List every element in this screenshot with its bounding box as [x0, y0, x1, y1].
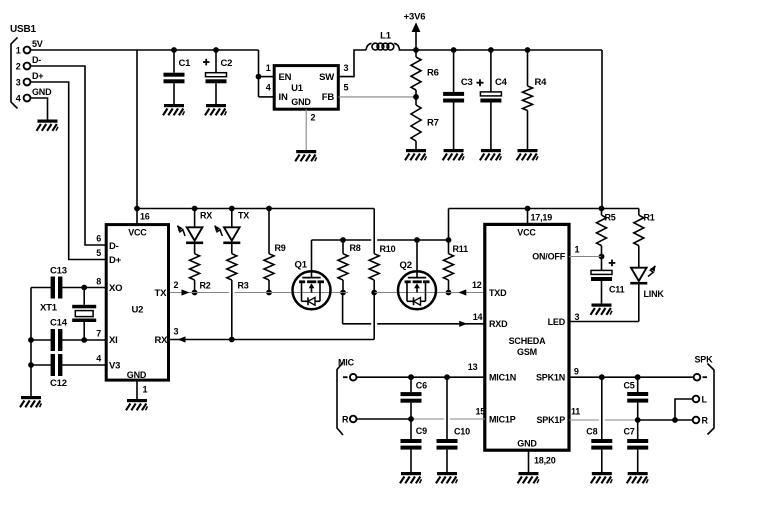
- svg-text:4: 4: [16, 94, 21, 104]
- svg-text:R8: R8: [350, 243, 361, 253]
- svg-text:R4: R4: [535, 77, 548, 88]
- svg-text:13: 13: [468, 362, 478, 372]
- svg-text:XT1: XT1: [40, 303, 58, 314]
- svg-text:14: 14: [473, 312, 483, 322]
- svg-text:15: 15: [476, 407, 486, 417]
- svg-text:C4: C4: [495, 77, 508, 88]
- svg-text:D-: D-: [109, 241, 119, 252]
- svg-text:4: 4: [96, 354, 101, 364]
- svg-text:D+: D+: [109, 255, 122, 266]
- svg-text:R11: R11: [453, 244, 469, 254]
- svg-text:FB: FB: [322, 92, 335, 103]
- svg-text:5: 5: [344, 83, 349, 93]
- svg-text:8: 8: [96, 277, 101, 287]
- svg-text:C14: C14: [50, 318, 68, 329]
- svg-text:RX: RX: [200, 211, 212, 221]
- svg-text:Q1: Q1: [295, 260, 308, 271]
- svg-text:R: R: [702, 416, 709, 426]
- svg-text:GND: GND: [127, 370, 147, 380]
- svg-text:4: 4: [266, 83, 271, 93]
- svg-text:C3: C3: [461, 77, 473, 88]
- svg-text:GND: GND: [517, 439, 537, 449]
- svg-text:1: 1: [266, 63, 271, 73]
- svg-text:C11: C11: [609, 285, 625, 295]
- svg-text:1: 1: [575, 245, 580, 255]
- svg-text:R2: R2: [200, 281, 211, 291]
- svg-text:C2: C2: [221, 58, 233, 69]
- svg-text:RX: RX: [155, 335, 169, 346]
- svg-text:MIC1N: MIC1N: [489, 373, 516, 383]
- svg-text:2: 2: [16, 62, 21, 72]
- svg-text:XO: XO: [109, 283, 122, 294]
- svg-text:LINK: LINK: [644, 289, 665, 299]
- svg-text:C9: C9: [416, 426, 427, 436]
- svg-text:TXD: TXD: [489, 288, 507, 298]
- svg-text:Q2: Q2: [400, 260, 412, 271]
- svg-text:2: 2: [174, 280, 179, 290]
- svg-text:VCC: VCC: [128, 228, 147, 238]
- svg-text:R: R: [342, 415, 349, 425]
- svg-text:R7: R7: [427, 118, 439, 129]
- svg-text:LED: LED: [548, 317, 566, 327]
- svg-text:3: 3: [575, 312, 580, 322]
- svg-text:D-: D-: [32, 55, 41, 65]
- svg-text:C8: C8: [586, 427, 597, 437]
- svg-text:MIC1P: MIC1P: [489, 414, 516, 424]
- svg-text:18,20: 18,20: [534, 456, 556, 466]
- svg-text:+3V6: +3V6: [404, 11, 426, 22]
- svg-text:3: 3: [174, 327, 179, 337]
- svg-text:5V: 5V: [32, 39, 43, 49]
- svg-text:SPK: SPK: [695, 355, 714, 365]
- svg-text:TX: TX: [155, 288, 168, 299]
- svg-text:U2: U2: [132, 305, 144, 316]
- svg-text:GND: GND: [32, 87, 52, 97]
- svg-text:GSM: GSM: [517, 347, 537, 357]
- svg-text:9: 9: [574, 367, 579, 377]
- svg-text:U1: U1: [291, 83, 304, 94]
- svg-text:V3: V3: [109, 361, 120, 372]
- svg-text:C1: C1: [179, 58, 192, 69]
- svg-text:C12: C12: [50, 378, 67, 389]
- svg-text:SPK1N: SPK1N: [536, 373, 565, 383]
- svg-text:C10: C10: [454, 427, 470, 437]
- svg-text:C13: C13: [50, 266, 67, 277]
- svg-text:USB1: USB1: [10, 24, 37, 35]
- svg-text:L1: L1: [380, 31, 392, 42]
- svg-text:C6: C6: [416, 381, 427, 391]
- svg-text:GND: GND: [291, 97, 311, 107]
- svg-text:3: 3: [16, 78, 21, 88]
- svg-text:D+: D+: [32, 71, 43, 81]
- svg-text:R10: R10: [380, 244, 396, 254]
- svg-text:1: 1: [16, 46, 21, 56]
- svg-text:SW: SW: [319, 72, 334, 83]
- svg-text:C5: C5: [624, 381, 635, 391]
- svg-text:C7: C7: [624, 427, 635, 437]
- svg-text:1: 1: [143, 385, 148, 395]
- svg-text:11: 11: [571, 407, 580, 417]
- svg-text:7: 7: [96, 329, 101, 339]
- svg-text:SPK1P: SPK1P: [536, 415, 565, 425]
- svg-text:R3: R3: [238, 281, 249, 291]
- svg-text:XI: XI: [109, 335, 118, 346]
- svg-text:6: 6: [96, 234, 101, 244]
- svg-text:IN: IN: [279, 92, 288, 103]
- svg-text:ON/OFF: ON/OFF: [532, 252, 565, 262]
- svg-text:R5: R5: [605, 213, 616, 223]
- svg-text:3: 3: [344, 63, 349, 73]
- svg-text:12: 12: [472, 280, 482, 290]
- svg-text:R1: R1: [644, 213, 655, 223]
- svg-text:5: 5: [96, 248, 101, 258]
- svg-text:R9: R9: [275, 243, 286, 253]
- svg-text:2: 2: [311, 113, 316, 123]
- svg-text:RXD: RXD: [489, 319, 508, 329]
- svg-text:16: 16: [140, 212, 150, 222]
- svg-text:VCC: VCC: [517, 228, 536, 238]
- svg-text:TX: TX: [238, 211, 249, 221]
- svg-text:EN: EN: [279, 72, 292, 83]
- svg-text:17,19: 17,19: [531, 212, 553, 222]
- svg-text:L: L: [702, 395, 708, 405]
- svg-text:SCHEDA: SCHEDA: [509, 336, 547, 346]
- svg-text:R6: R6: [427, 68, 439, 79]
